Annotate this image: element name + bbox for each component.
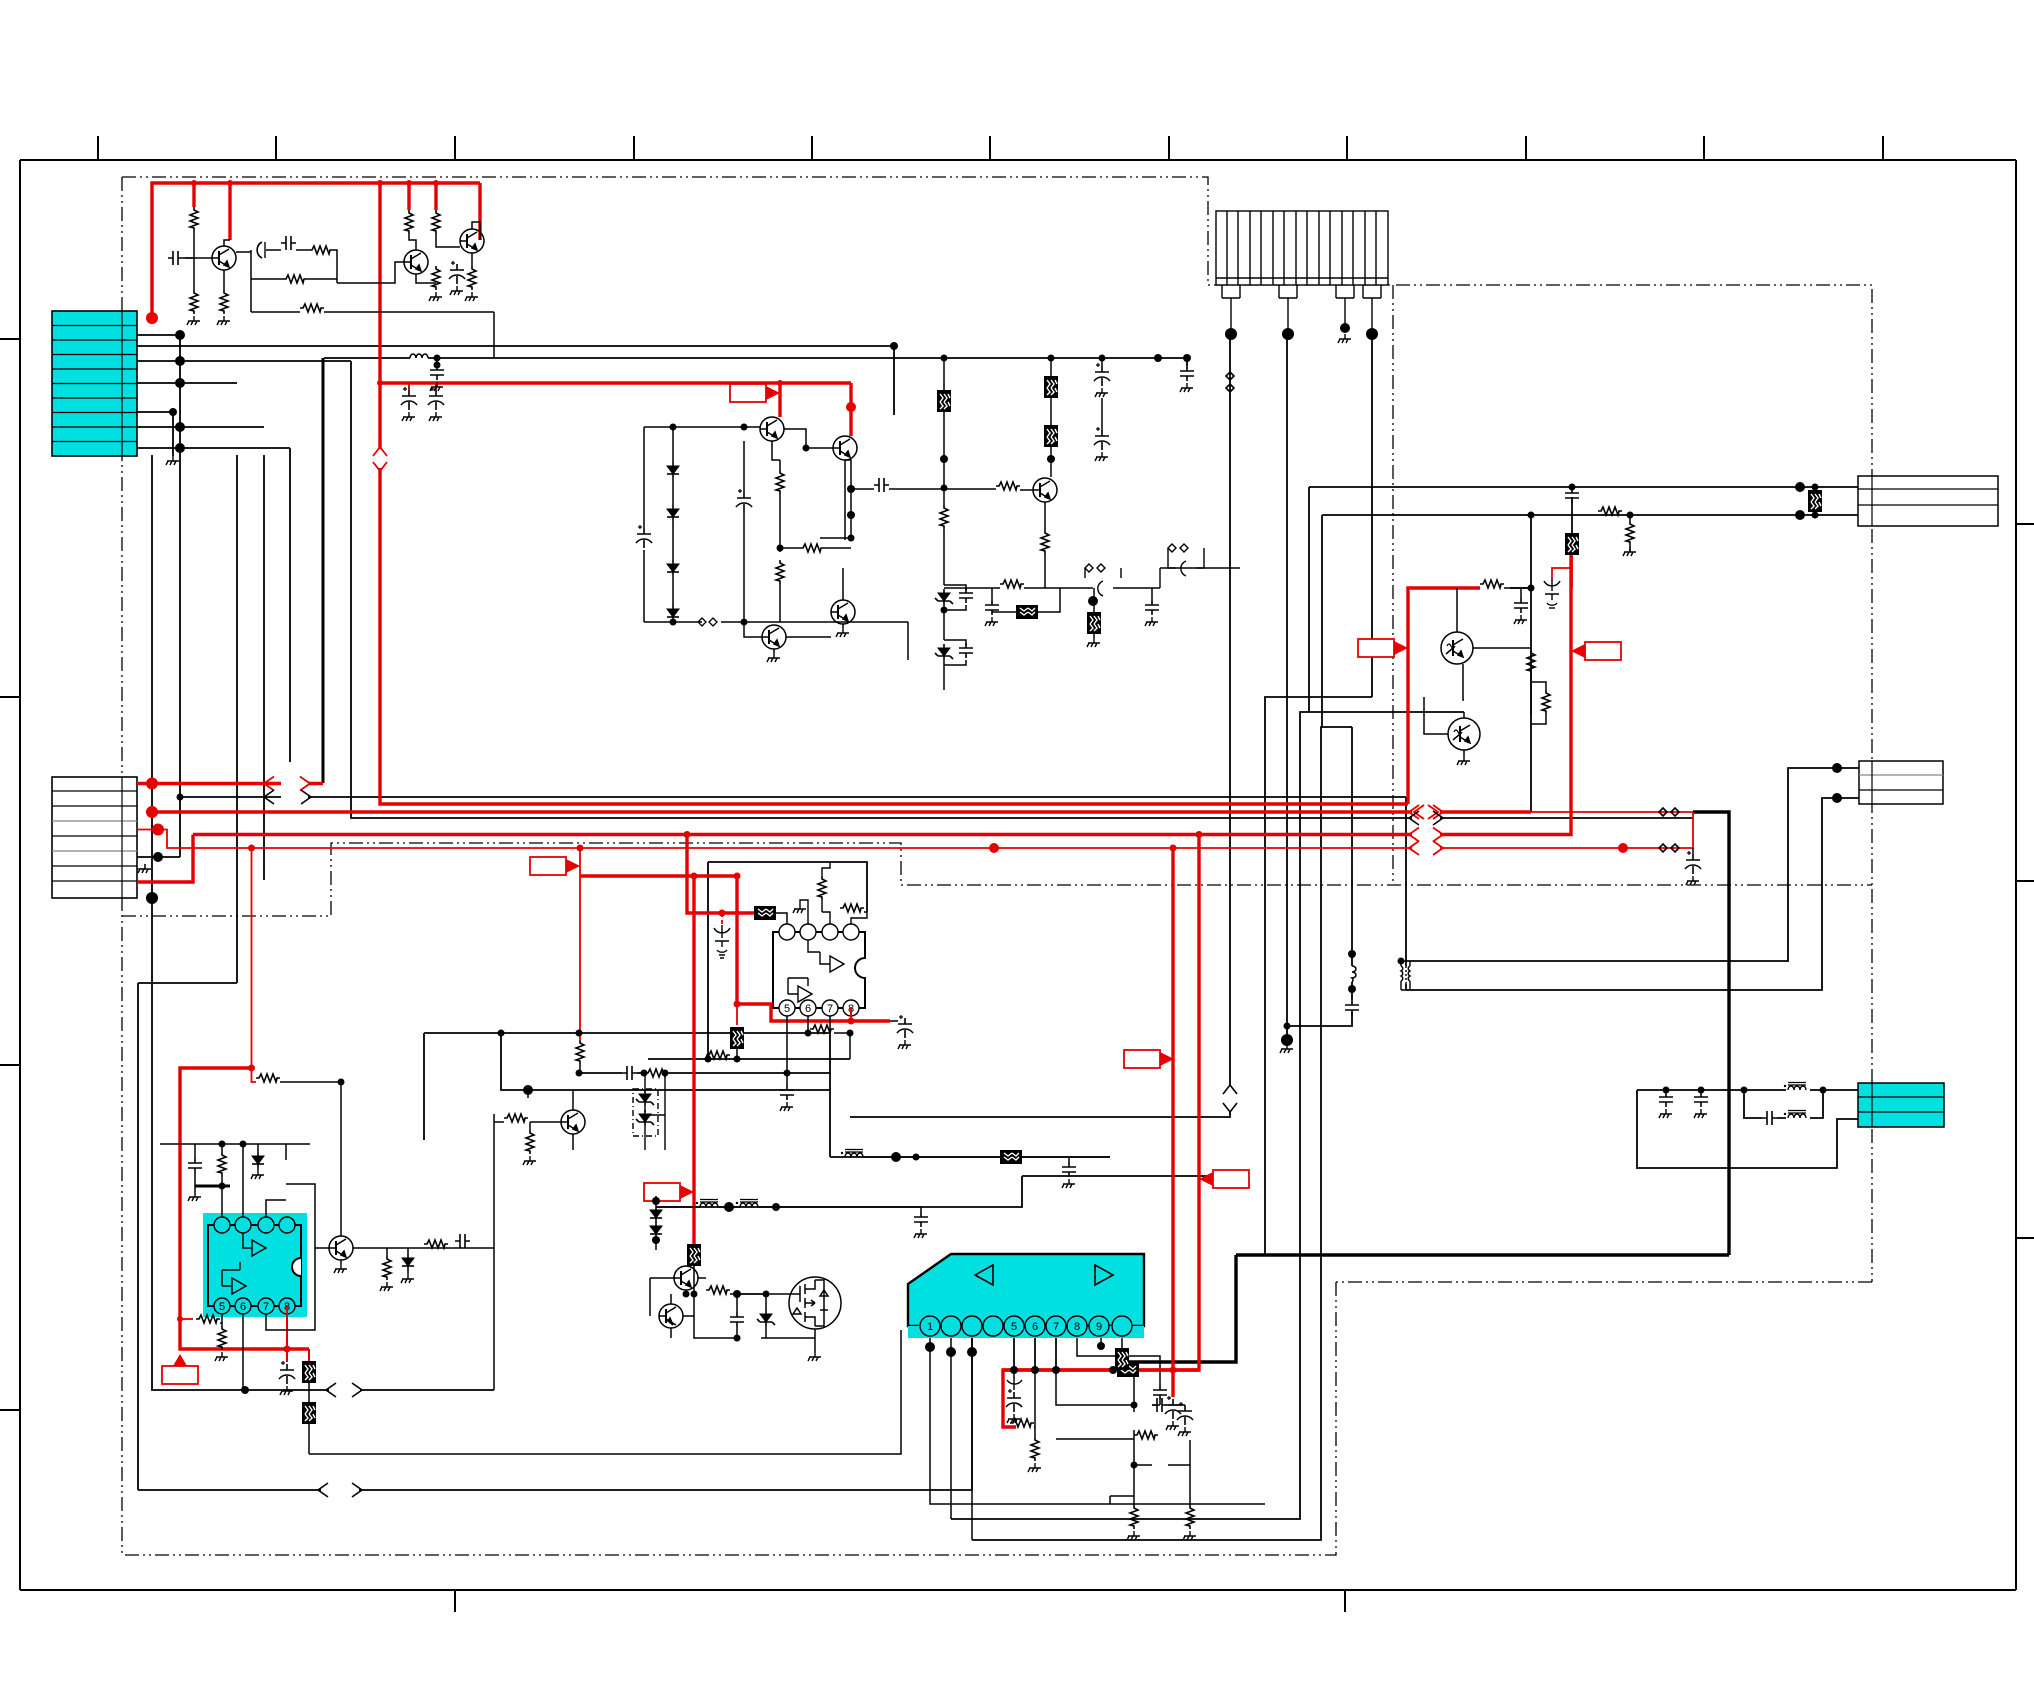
resistor R101 bbox=[190, 207, 198, 231]
resistor R1003 bbox=[1134, 1431, 1158, 1439]
wire y=1176 bbox=[1022, 1175, 1236, 1177]
wire y=1090 bbox=[501, 1033, 830, 1090]
capacitor C901 bbox=[1565, 488, 1579, 503]
big dot gnd bbox=[527, 1090, 529, 1098]
wire transformer pair to connector2 bbox=[1406, 768, 1859, 990]
resistor R402 in series bbox=[1527, 650, 1535, 674]
boxed resistor RB301 bbox=[937, 390, 951, 412]
pin6 down bbox=[807, 1016, 809, 1033]
resistor R608 on red stub y=1082 bbox=[256, 1074, 280, 1082]
transistor Q501 bbox=[561, 1110, 585, 1134]
wire red V-B x=1199 bbox=[1003, 835, 1199, 1428]
wire pin2-6 link x=180 bbox=[137, 797, 180, 857]
wire y=818 resume bbox=[1440, 817, 1693, 819]
resistor R501 above pin3 bbox=[818, 876, 826, 900]
diamonds on wires bbox=[1659, 808, 1679, 816]
transformer T801 vertical bbox=[1401, 966, 1410, 984]
electrolytic C1001 below pin5 bbox=[1007, 1377, 1022, 1390]
transistor Q204 bbox=[762, 625, 786, 649]
svg-text:7: 7 bbox=[1053, 1321, 1059, 1333]
resistor R605 bbox=[424, 1240, 448, 1248]
wire nested verticals from comb area bbox=[1265, 697, 1372, 1255]
pin6 long down bbox=[242, 1314, 244, 1390]
board 1 (top) outline bbox=[122, 177, 1392, 285]
transformer bead L703 on y=1157 bbox=[841, 1150, 863, 1158]
capacitor C305 bbox=[985, 600, 999, 615]
capacitor C1002 bbox=[1152, 1398, 1167, 1412]
transformer beads L701 L702 bbox=[696, 1200, 718, 1208]
resistor R304 bbox=[1000, 580, 1024, 588]
wire top row bbox=[160, 1144, 310, 1160]
boxed resistor RB502 on x=737 bbox=[730, 1027, 744, 1049]
board 2 (bottom) outline bbox=[122, 843, 1872, 916]
wire red top bus y=183 bbox=[152, 183, 480, 318]
resistor R401 bbox=[1480, 580, 1504, 588]
zener D301 bbox=[935, 589, 953, 605]
coil L101 on y=358 bbox=[410, 354, 428, 358]
electrolytic C1005 at V-A bottom bbox=[1165, 1396, 1181, 1430]
wire red bus y=834.5 bbox=[193, 555, 1571, 835]
resistor R504 on y=1059 bbox=[706, 1051, 730, 1059]
resonator X302 bbox=[1168, 544, 1240, 576]
wire vertical x=351 bbox=[351, 361, 1412, 818]
resistor R202 bbox=[776, 560, 784, 584]
diode D202 bbox=[667, 505, 679, 521]
resonator X301 bbox=[1060, 564, 1216, 596]
boxed resistor RB1002 below pin10 bbox=[1115, 1348, 1129, 1370]
capacitor C701 bbox=[730, 1312, 744, 1327]
resistor R505 under red x=580 bbox=[576, 1040, 584, 1064]
wire red y=1370 segment pins bbox=[1003, 1368, 1199, 1371]
wire y=1415 small cluster right of big IC bbox=[1056, 1430, 1190, 1465]
resistor R1002 bbox=[1010, 1419, 1034, 1427]
wire big IC pins 5-7 to red rail bbox=[1014, 1338, 1056, 1370]
wire y=797 from left connector pin2 bbox=[180, 796, 1406, 798]
resistor R302 bbox=[996, 482, 1020, 490]
wire y=1059 bottom of opamp zone bbox=[648, 1059, 850, 1105]
wire x=1531 vertical bbox=[1530, 515, 1532, 812]
resistor R109 bbox=[432, 266, 440, 290]
wire left connector verticals bbox=[137, 335, 290, 983]
diode D601 bbox=[252, 1152, 264, 1168]
boxed resistor RB501 bbox=[754, 906, 776, 920]
electrolytic C105 bbox=[408, 383, 410, 390]
electrolytic C303 bbox=[1094, 427, 1110, 450]
resistor R106 bbox=[300, 304, 324, 312]
svg-text:5: 5 bbox=[784, 1003, 790, 1015]
wire y=1117 with up-break bbox=[850, 1112, 1230, 1117]
boxed resistor RB902 between wires bbox=[1808, 490, 1822, 512]
boxed resistor RB601 bbox=[302, 1361, 316, 1383]
zener pair box bbox=[633, 1073, 658, 1150]
boxed resistor RB602 bbox=[302, 1402, 316, 1424]
test point symbol at x=722 bbox=[714, 925, 730, 958]
resistor R502 right bbox=[840, 904, 864, 912]
transistor Q601 bbox=[329, 1236, 353, 1260]
svg-text:1: 1 bbox=[927, 1321, 933, 1333]
resistor R107 bbox=[405, 210, 413, 234]
resistor R601 bbox=[218, 1152, 226, 1176]
boxed resistor RB302 bbox=[1044, 376, 1058, 398]
capacitor C401 with ground bbox=[1514, 598, 1528, 613]
svg-text:6: 6 bbox=[240, 1301, 246, 1313]
svg-text:8: 8 bbox=[1074, 1321, 1080, 1333]
resistor R102 bbox=[190, 290, 198, 314]
diode D204 bbox=[667, 605, 679, 621]
svg-text:7: 7 bbox=[263, 1301, 269, 1313]
resistor R603 below pin5 bbox=[218, 1326, 226, 1350]
resistor R506 bbox=[504, 1114, 528, 1122]
resistor R1001 below pin6 bbox=[1031, 1437, 1039, 1461]
resistor R201 bbox=[776, 470, 784, 494]
transistor Q701 bbox=[674, 1266, 698, 1290]
wire red y=812 diamonds segment to thick black bbox=[1440, 811, 1693, 813]
connector CN left-middle (white) bbox=[52, 777, 151, 898]
capacitor C501 bbox=[780, 1085, 794, 1100]
electrolytic C1003 bbox=[1177, 1402, 1193, 1425]
diode pair D702 bbox=[655, 1196, 657, 1250]
connector right-2 (white, y=761) bbox=[1859, 761, 1943, 804]
boxed resistor RB701 bbox=[687, 1244, 701, 1266]
diode D602 bbox=[402, 1254, 414, 1270]
resistor R604 bbox=[383, 1256, 391, 1280]
svg-text:7: 7 bbox=[827, 1003, 833, 1015]
electrolytic C104 bbox=[449, 261, 465, 284]
wire red riser x=1408 to y=588 bbox=[1408, 588, 1480, 804]
test point arrow at red x=1552 bbox=[1544, 578, 1560, 608]
comb connector top (tuner block) bbox=[1216, 211, 1388, 334]
MOSFET Q703 bbox=[789, 1277, 841, 1329]
transistor Q103 bbox=[460, 229, 484, 253]
boxed resistor RB304 bbox=[1016, 605, 1038, 619]
capacitor C301 bbox=[944, 585, 966, 610]
wire red bus y=383 bbox=[380, 381, 851, 384]
capacitor C603 bbox=[455, 1234, 470, 1248]
wire y=1073 bbox=[579, 1072, 830, 1074]
wire y=983 link bbox=[138, 982, 237, 984]
capacitor C601 bbox=[188, 1158, 202, 1173]
resistor R1004 R1005 bbox=[1130, 1505, 1138, 1529]
wire y=588 bbox=[1510, 587, 1531, 589]
zener D302 bbox=[935, 644, 953, 660]
electrolytic C302 bbox=[1094, 363, 1110, 386]
wire right connector1 feed details bbox=[1571, 487, 1573, 540]
electrolytic C201 bbox=[636, 525, 652, 548]
boxed resistor RB1001 on red rail bbox=[1117, 1363, 1139, 1377]
wire x=152 long down bbox=[152, 855, 494, 1390]
photo transistor Q402 bbox=[1448, 718, 1480, 750]
flag pointing up at red corner x=180 bbox=[162, 1354, 198, 1384]
wire red long vertical x=380 with break bbox=[380, 183, 1408, 804]
connector right-1 (white, y=476) bbox=[1858, 476, 1998, 526]
boxed resistor RB305 with ground bbox=[1087, 612, 1101, 634]
zener D501 bbox=[636, 1090, 654, 1106]
gnd from comb pin2 bbox=[1280, 1044, 1293, 1053]
wire top rail bbox=[644, 427, 760, 622]
black break chevrons bbox=[264, 372, 1679, 1497]
pin5 down to bus bbox=[786, 1016, 788, 1085]
wire red thick left drop x=180 bbox=[180, 1068, 309, 1349]
transistor Q202 bbox=[833, 436, 857, 460]
feedback loop wires bbox=[236, 250, 251, 312]
boxed resistor RB901 bbox=[1565, 533, 1579, 555]
red break chevrons at x=1412/1440 on buses bbox=[264, 777, 1443, 856]
capacitor C101 bbox=[168, 251, 183, 265]
resistor R701 gate bbox=[706, 1286, 730, 1294]
resistor R301 bbox=[940, 505, 948, 529]
wire red bus y=812 bbox=[152, 810, 1531, 813]
wire red V1 x=687 bbox=[687, 835, 756, 914]
wire y=862 to IC4 bbox=[708, 862, 867, 912]
capacitor C1004 below pin8 bbox=[1153, 1385, 1167, 1400]
capacitor C304 end of bus bbox=[1180, 366, 1194, 381]
boxed resistor RB303 bbox=[1044, 425, 1058, 447]
wire x=830 down bbox=[829, 1033, 831, 1157]
ground at connector bbox=[137, 864, 145, 869]
svg-text:5: 5 bbox=[1011, 1321, 1017, 1333]
wire y=1207 row bbox=[656, 1176, 1022, 1207]
coil L801 on x=1352 bbox=[1352, 966, 1356, 982]
ground under connector TL bbox=[166, 456, 179, 465]
wire red pin1 y=783.5 bbox=[137, 782, 323, 785]
photo transistor Q401 bbox=[1441, 632, 1473, 664]
pin7 loop right side bbox=[266, 1184, 315, 1330]
capacitor C703 bbox=[1062, 1162, 1076, 1177]
wire x=708 bbox=[707, 862, 709, 1059]
pin leads down to dots bbox=[1231, 312, 1372, 334]
svg-text:9: 9 bbox=[1096, 1321, 1102, 1333]
resistor R503 bbox=[810, 1025, 834, 1033]
electrolytic C106 bbox=[435, 383, 437, 390]
wire bottom lines bbox=[309, 1330, 901, 1454]
resistor R108 bbox=[432, 210, 440, 234]
wire pin4 y=361 bbox=[180, 360, 351, 362]
capacitor C103 bbox=[281, 236, 296, 250]
capacitor C702 bbox=[914, 1212, 928, 1227]
wire bus y=358 bbox=[324, 358, 1187, 366]
wire comb pin verticals bbox=[1229, 334, 1231, 1085]
trimmer C102 bbox=[257, 242, 265, 258]
wire red vertical x=579.8 thin bbox=[579, 848, 581, 1040]
wire red V2 x=694 bbox=[692, 876, 695, 1244]
wire thick black power path bbox=[1693, 812, 1729, 1255]
electrolytic C202 bbox=[736, 489, 752, 512]
svg-text:6: 6 bbox=[1032, 1321, 1038, 1333]
wire red x=1572 at right connector bbox=[1552, 555, 1572, 588]
electrolytic C502 at red rail end bbox=[890, 1020, 898, 1022]
transistor Q702 bbox=[659, 1304, 683, 1328]
resistor R303 bbox=[1041, 530, 1049, 554]
capacitor C801 bbox=[1345, 1000, 1359, 1015]
transistor Q203 bbox=[831, 600, 855, 624]
wire x=1309/1322 to right connector wires bbox=[1309, 487, 1858, 712]
resistor R403 bbox=[1542, 690, 1550, 714]
wire red thin x=251.5 bbox=[251, 848, 253, 1068]
svg-text:5: 5 bbox=[219, 1301, 225, 1313]
red junction dots bbox=[146, 180, 1628, 1374]
wire cyan connector cap cluster bbox=[1637, 1089, 1858, 1091]
resistor R105 bbox=[283, 275, 307, 283]
resistor R602 on red stub bbox=[196, 1315, 220, 1323]
pin7 down to y1033 bbox=[829, 1016, 831, 1033]
wire red V-A x=1173 from thin bus bbox=[1171, 848, 1174, 1397]
zener D502 bbox=[636, 1110, 654, 1126]
capacitor C107 bbox=[430, 365, 444, 380]
boxed resistor RB702 bbox=[1000, 1150, 1022, 1164]
wire y=1157 row bbox=[830, 1156, 1110, 1158]
resistor R507 bbox=[526, 1130, 534, 1154]
diode D201 bbox=[667, 462, 679, 478]
transistor Q102 bbox=[404, 250, 428, 274]
transistor Q201 bbox=[760, 417, 784, 441]
connector CN top-left (cyan) bbox=[52, 311, 137, 456]
wire y=1033 bbox=[424, 1033, 830, 1140]
wire red stub test point x=722 bbox=[721, 913, 723, 925]
transistor Q101 bbox=[212, 246, 236, 270]
resistor R902 with gnd bbox=[1626, 521, 1634, 545]
capacitor C306 with ground bbox=[1145, 600, 1159, 615]
red break chevrons on x=380 bbox=[373, 447, 387, 471]
diode D203 bbox=[667, 560, 679, 576]
svg-text:6: 6 bbox=[805, 1003, 811, 1015]
wire x=138 gnd return bbox=[138, 983, 972, 1490]
wire big IC pin drops bbox=[1014, 1338, 1160, 1437]
wire red V3 x=737 down to IC bottom bus bbox=[737, 876, 890, 1021]
wire x=894 bbox=[893, 346, 895, 415]
capacitor C203 bbox=[874, 478, 889, 492]
pin tabs bbox=[1222, 285, 1240, 312]
transistor Q301 bbox=[1033, 478, 1057, 502]
resistor R203 bbox=[800, 544, 824, 552]
gnd stub above pin2 bbox=[800, 900, 808, 924]
zener D701 bbox=[757, 1310, 775, 1326]
connector right-3 (cyan, y=1083) bbox=[1858, 1083, 1944, 1127]
electrolytic C602 bbox=[279, 1361, 295, 1384]
wire x=1352 coil line bbox=[1287, 954, 1352, 1026]
resistor R104 bbox=[309, 246, 333, 254]
resistor R103 bbox=[220, 290, 228, 314]
wire red thin bus y=848 bbox=[137, 812, 1693, 848]
wire thick black x=323 bbox=[322, 358, 325, 783]
wire red thick y=876 bbox=[580, 874, 737, 877]
red flags bbox=[162, 384, 1621, 1384]
wire bus y=346 bbox=[173, 345, 894, 347]
resistor R110 bbox=[468, 266, 476, 290]
resistor R901 bbox=[1598, 507, 1622, 515]
thick gnd bar bbox=[195, 1185, 230, 1188]
